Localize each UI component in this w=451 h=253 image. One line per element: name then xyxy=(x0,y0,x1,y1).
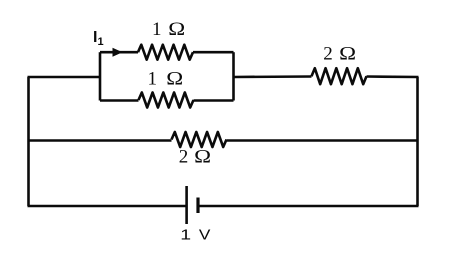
svg-text:Ω: Ω xyxy=(339,42,356,64)
svg-text:V: V xyxy=(199,227,211,244)
svg-text:I1: I1 xyxy=(93,29,104,48)
svg-text:2: 2 xyxy=(179,147,189,168)
svg-text:2: 2 xyxy=(323,44,333,65)
svg-text:Ω: Ω xyxy=(166,67,183,89)
svg-text:Ω: Ω xyxy=(194,145,211,167)
svg-text:1: 1 xyxy=(148,69,158,90)
svg-text:1: 1 xyxy=(180,226,191,243)
svg-text:Ω: Ω xyxy=(168,18,185,40)
svg-text:1: 1 xyxy=(152,19,162,40)
